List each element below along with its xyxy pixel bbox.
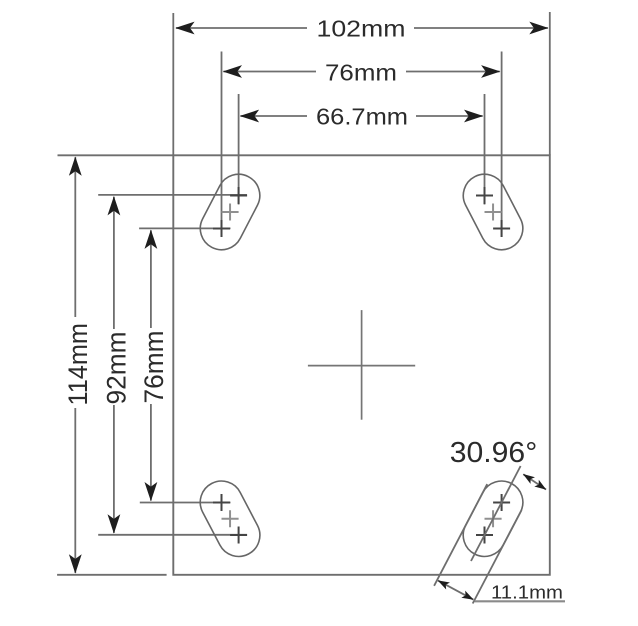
plate outline <box>173 155 550 575</box>
svg-text:92mm: 92mm <box>102 332 132 405</box>
extension line right of 76mm top <box>501 52 503 238</box>
slot axis line extended (angle reference) <box>471 466 521 561</box>
width dimension double arrow 11.1mm <box>438 581 473 600</box>
cross TL lower <box>213 220 230 237</box>
cross BR lower <box>476 527 493 544</box>
cross BL lower <box>230 527 247 544</box>
extension line top of 76mm vertical <box>139 227 230 229</box>
cross TL middle <box>222 204 239 221</box>
dimension line 92mm <box>102 197 132 533</box>
extension line right of 102mm <box>549 12 551 155</box>
cross BL upper <box>213 494 230 511</box>
cross TR upper <box>476 187 493 204</box>
extension line left of 102mm (top-left, above plate) <box>172 13 174 155</box>
svg-text:76mm: 76mm <box>139 331 169 404</box>
extension line top of 114mm (left) <box>58 154 174 156</box>
angle dimension double arrow 30.96 <box>523 474 546 489</box>
dimension line 76mm top <box>223 60 499 86</box>
slot hole top-right <box>456 167 530 257</box>
slot hole bottom-right <box>456 474 530 564</box>
center cross <box>308 310 415 420</box>
extension line left of 66.7mm <box>238 94 240 205</box>
slot left tangent line (11.1mm width reference) <box>434 484 487 586</box>
slot hole bottom-left <box>193 474 267 564</box>
cross TL upper <box>230 187 247 204</box>
extension line bottom of 114mm <box>57 574 167 576</box>
svg-text:102mm: 102mm <box>317 16 406 42</box>
svg-text:76mm: 76mm <box>325 60 397 86</box>
dimension line 76mm vertical <box>139 230 169 500</box>
extension line right of 66.7mm <box>484 94 486 205</box>
extension line bottom of 92mm <box>98 534 247 536</box>
svg-text:114mm: 114mm <box>63 323 93 406</box>
slot hole top-left <box>193 167 267 257</box>
cross BL middle <box>222 510 239 527</box>
extension line left of 76mm top <box>221 52 223 238</box>
extension line bottom of 76mm vertical <box>140 502 231 504</box>
dimension line 114mm <box>63 157 93 573</box>
dimension line 66.7mm <box>241 104 483 130</box>
cross BR upper <box>493 494 510 511</box>
svg-text:66.7mm: 66.7mm <box>316 104 408 130</box>
cross TR middle <box>485 204 502 221</box>
svg-text:11.1mm: 11.1mm <box>491 582 563 603</box>
cross TR lower <box>493 220 510 237</box>
svg-text:30.96°: 30.96° <box>450 437 538 469</box>
dimension line 102mm <box>176 16 548 42</box>
cross BR middle <box>485 510 502 527</box>
slot right tangent line (11.1mm width reference) <box>473 510 522 604</box>
extension line top of 92mm (left) <box>98 194 247 196</box>
